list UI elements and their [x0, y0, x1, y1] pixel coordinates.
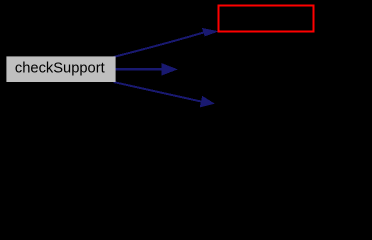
wire edge A: checkSupport to truncated node: [114, 33, 204, 58]
node truncated (red border box): [219, 5, 314, 31]
arrowhead edge A: [202, 28, 219, 37]
node checkSupport (current node, grey fill): [6, 56, 115, 82]
arrowhead edge C: [200, 96, 215, 108]
wire edge C: checkSupport to hidden node 3: [114, 82, 202, 102]
svg-text:checkSupport: checkSupport: [15, 61, 105, 77]
arrowhead edge B: [161, 63, 177, 76]
wire edge B: checkSupport to hidden node 2: [114, 68, 163, 71]
